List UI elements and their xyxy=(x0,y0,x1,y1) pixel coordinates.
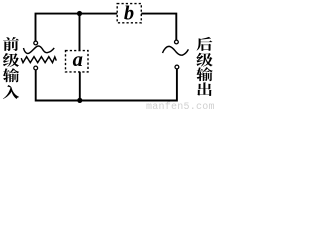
svg-text:a: a xyxy=(73,49,83,71)
svg-text:b: b xyxy=(124,2,134,24)
svg-text:manfen5.com: manfen5.com xyxy=(146,101,215,110)
